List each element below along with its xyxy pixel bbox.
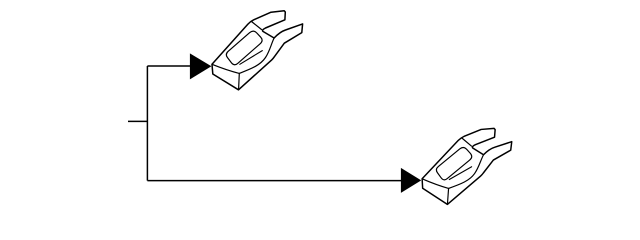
callout tick — [128, 120, 148, 122]
leader line to lower part — [147, 180, 402, 182]
callout vertical line — [146, 66, 148, 181]
arrowhead to lower part — [401, 168, 421, 193]
part: clevis fork (lower) — [421, 127, 512, 207]
arrowhead to upper part — [190, 53, 212, 79]
leader line to upper part — [147, 65, 191, 67]
part: clevis fork (upper) — [212, 11, 303, 90]
